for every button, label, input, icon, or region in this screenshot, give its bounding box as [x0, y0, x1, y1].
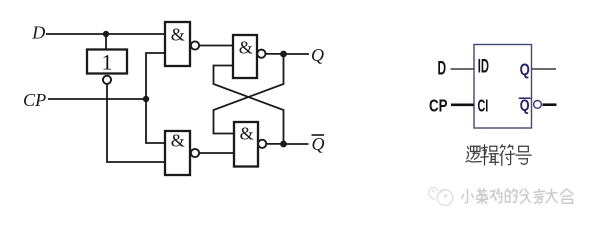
wire D to inverter	[105, 34, 107, 50]
svg-text:CP: CP	[23, 90, 46, 110]
node Q junction	[280, 51, 287, 58]
NAND gate G1 output bubble	[191, 41, 199, 49]
node Qbar junction	[280, 141, 287, 148]
wire Qbar output	[543, 103, 557, 106]
wire feedback Qbar to gate G2 lower input	[214, 66, 284, 145]
caption 符 (fu)	[500, 145, 515, 165]
svg-text:D: D	[438, 57, 447, 79]
svg-text:1: 1	[102, 50, 113, 75]
inverter U1 box	[87, 50, 127, 74]
wire CP to symbol	[451, 104, 474, 107]
wire inverter output to gate G3 lower input	[107, 84, 165, 162]
NAND gate G4 box	[234, 122, 258, 167]
pin label Qbar	[519, 97, 531, 114]
output label Qbar	[312, 134, 325, 154]
inverter U1 output bubble	[103, 76, 111, 84]
watermark text 小菜鸡的分享大会	[462, 189, 573, 204]
svg-text:&: &	[171, 131, 185, 151]
svg-text:ID: ID	[478, 56, 489, 77]
logic symbol U2 box	[474, 45, 532, 129]
wire G4 output to node Qbar	[266, 143, 283, 145]
NAND gate G1 box	[165, 22, 190, 66]
wire D input	[46, 33, 165, 35]
wire CP to gate G1 lower input	[146, 53, 165, 99]
wire G2 output to node Q	[266, 53, 284, 55]
svg-text:Q: Q	[520, 61, 530, 79]
NAND gate G2 output bubble	[257, 50, 265, 58]
caption 号 (hao)	[516, 146, 531, 164]
wire G3 output to G4 lower input	[199, 152, 234, 154]
svg-text:D: D	[31, 23, 45, 43]
caption 逻 (luo)	[466, 146, 481, 162]
svg-text:&: &	[239, 37, 253, 57]
svg-text:CP: CP	[429, 96, 448, 116]
svg-text:&: &	[240, 123, 254, 143]
svg-text:&: &	[171, 25, 185, 45]
svg-text:Q: Q	[520, 97, 530, 114]
NAND gate G3 output bubble	[191, 149, 199, 157]
NAND gate G3 box	[165, 131, 190, 175]
wire feedback Q to gate G4 upper input	[214, 54, 284, 134]
watermark logo chick	[429, 188, 453, 206]
NAND gate G2 box	[233, 35, 257, 78]
wire G1 output to G2 input	[199, 45, 233, 47]
svg-text:Q: Q	[311, 45, 324, 65]
wire node Q to label	[284, 53, 310, 55]
svg-text:Q: Q	[312, 134, 325, 154]
NAND gate G4 output bubble	[258, 140, 266, 148]
caption 辑 (ji)	[481, 145, 499, 165]
node junction on CP wire	[143, 96, 149, 102]
wire node Qbar to label	[284, 143, 309, 145]
wire CP input	[48, 98, 146, 100]
symbol Qbar output bubble	[534, 101, 542, 109]
wire D to symbol	[451, 68, 475, 70]
svg-text:CI: CI	[478, 96, 489, 116]
wire CP to gate G3 upper input	[146, 99, 165, 143]
wire Q output	[532, 68, 557, 70]
node junction on D wire	[103, 31, 109, 37]
